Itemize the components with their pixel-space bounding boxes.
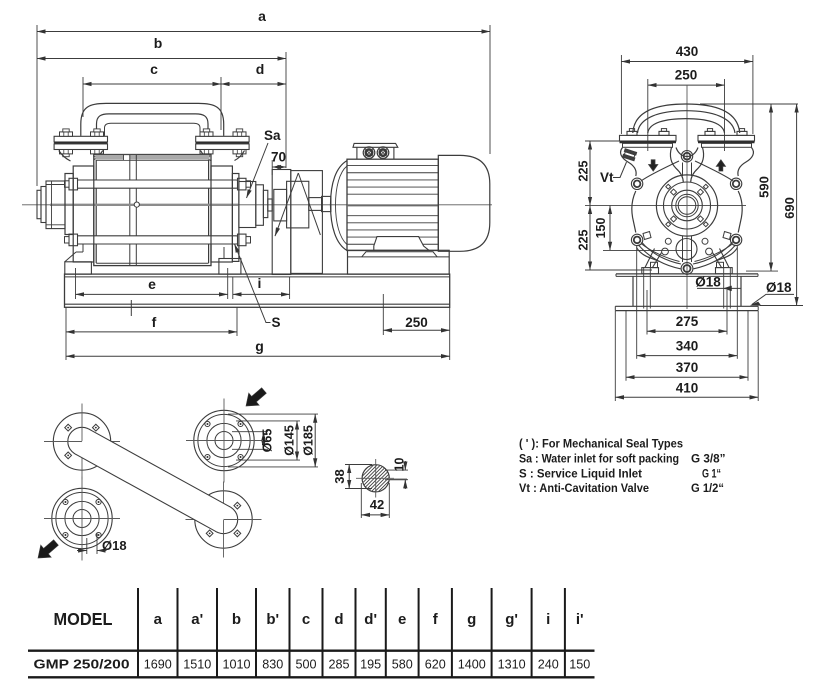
front view: anti-cavitation valve Vt — [623, 149, 637, 161]
side view: motor terminal box — [353, 143, 398, 147]
side view: motor fan cover — [438, 155, 490, 251]
side view: left shaft end — [37, 190, 41, 218]
side view: dimension g — [65, 308, 67, 361]
svg-text:285: 285 — [328, 658, 349, 672]
svg-text:GMP 250/200: GMP 250/200 — [34, 657, 130, 672]
svg-text:e: e — [148, 276, 156, 292]
side view: left support bracket — [65, 262, 92, 274]
svg-text:620: 620 — [425, 658, 446, 672]
svg-text:240: 240 — [538, 658, 559, 672]
side view: left cover plate — [65, 174, 73, 235]
svg-text:70: 70 — [271, 150, 286, 165]
svg-text:500: 500 — [295, 658, 316, 672]
front view: right leg — [720, 249, 730, 268]
front view: dimension 690 — [760, 305, 803, 307]
svg-text:Vt : Anti-Cavitation Valve: Vt : Anti-Cavitation Valve — [519, 481, 649, 495]
svg-text:d: d — [334, 611, 343, 628]
side view: dimension e — [75, 268, 77, 299]
svg-text:225: 225 — [576, 161, 590, 182]
svg-text:Ø65: Ø65 — [261, 429, 275, 453]
svg-text:g: g — [255, 338, 264, 354]
front view: casing ribs — [641, 161, 679, 181]
front view: flow arrow out — [716, 160, 725, 171]
svg-text:g: g — [467, 611, 476, 628]
front view: top casing bolt — [681, 151, 692, 162]
svg-text:G 3/8”: G 3/8” — [691, 452, 726, 466]
front view: left flange — [620, 135, 677, 141]
top view: dimension Ø145 — [236, 420, 300, 422]
side view: shaft — [50, 204, 238, 206]
top view: outlet arrow — [38, 540, 58, 558]
table: column lines — [137, 588, 139, 677]
svg-text:c: c — [150, 61, 158, 77]
shaft section: dimension 10 — [385, 469, 408, 471]
side view: motor body with fins — [347, 159, 438, 250]
front view: flange bolts — [627, 131, 637, 135]
svg-text:d': d' — [364, 611, 377, 628]
top view: flange top-right — [194, 410, 254, 470]
side view: right port flange pair — [196, 136, 249, 142]
side view: baseplate — [65, 274, 450, 307]
front view: pedestal — [616, 273, 758, 275]
top view: dimension Ø65 — [232, 431, 268, 433]
svg-text:1400: 1400 — [458, 658, 486, 672]
svg-text:150: 150 — [594, 218, 608, 239]
side view: right head — [211, 166, 232, 262]
svg-text:G 1“: G 1“ — [702, 467, 721, 481]
svg-text:S: S — [272, 315, 281, 330]
side view: dimension f — [236, 308, 238, 337]
side view: upper tie rod — [70, 180, 240, 188]
shaft section: dimension 42 — [360, 483, 362, 518]
svg-text:Ø145: Ø145 — [282, 425, 296, 456]
svg-text:370: 370 — [676, 360, 699, 375]
front view: side lug bolts — [631, 178, 642, 189]
side view: coupling — [274, 189, 287, 221]
svg-text:340: 340 — [676, 339, 699, 354]
front view: vertical centerline — [686, 85, 688, 309]
svg-text:Sa : Water inlet for soft pack: Sa : Water inlet for soft packing — [519, 452, 679, 466]
svg-text:( ' ): For Mechanical Seal Typ: ( ' ): For Mechanical Seal Types — [519, 437, 683, 451]
svg-text:Sa: Sa — [264, 128, 281, 143]
front view: casing top valley — [676, 148, 698, 157]
side view: motor drive-end bell — [331, 161, 348, 251]
svg-text:580: 580 — [392, 658, 413, 672]
side view: pump casing cylinder — [94, 155, 211, 266]
side view: cable glands — [363, 147, 375, 159]
svg-text:410: 410 — [676, 381, 699, 396]
front view: right foot pad — [716, 268, 733, 274]
front view: dimension 275 — [646, 290, 648, 335]
top view: flange bottom-left — [52, 488, 112, 548]
svg-text:g': g' — [505, 611, 518, 628]
front view: casing bottom V shell — [639, 245, 681, 269]
svg-text:225: 225 — [576, 230, 590, 251]
svg-text:c: c — [302, 611, 310, 628]
table: bottom line — [28, 676, 595, 678]
front view: dimension 340 — [636, 246, 638, 359]
svg-text:a: a — [154, 611, 163, 628]
top view: transfer pipe — [75, 429, 230, 532]
svg-text:1010: 1010 — [222, 658, 250, 672]
side view: left head — [73, 166, 94, 262]
front view: right flange — [698, 135, 755, 141]
top view: inlet arrow — [246, 388, 266, 406]
front view: casing inner walls — [670, 148, 683, 183]
front view: pedestal base plate — [615, 305, 758, 307]
front view: hub bolts — [697, 216, 703, 222]
front view: dimension 225 lower — [585, 269, 652, 271]
svg-text:1690: 1690 — [144, 658, 172, 672]
side view: left bearing cap — [46, 181, 65, 229]
svg-text:1510: 1510 — [183, 658, 211, 672]
front view: drain boss circle — [676, 239, 697, 260]
svg-text:150: 150 — [569, 658, 590, 672]
top view: flange bottom-right — [195, 491, 252, 548]
svg-text:250: 250 — [405, 315, 428, 330]
side view: dimension b — [285, 52, 287, 168]
side view: dimension i — [232, 277, 234, 299]
side view: bearing housing — [239, 182, 256, 228]
side view: dimension c — [82, 77, 84, 117]
side view: right port neck — [201, 151, 212, 162]
svg-text:G 1/2“: G 1/2“ — [691, 481, 724, 495]
top view: flange top-left — [53, 413, 110, 470]
svg-text:Ø18: Ø18 — [102, 538, 127, 553]
side view: motor support block — [348, 250, 450, 274]
front view: left foot pad — [642, 268, 659, 274]
svg-text:b: b — [232, 611, 241, 628]
side view: coupling guard — [272, 170, 291, 275]
top view: dimension Ø18 bolt hole — [86, 538, 88, 554]
svg-text:MODEL: MODEL — [54, 609, 113, 629]
side view: dimension 250 base — [382, 294, 384, 335]
side view: left port neck — [59, 151, 71, 162]
svg-text:1310: 1310 — [498, 658, 526, 672]
front view: dimension 430 — [620, 55, 622, 134]
svg-text:Ø185: Ø185 — [302, 425, 316, 456]
svg-text:38: 38 — [332, 469, 347, 483]
svg-text:a: a — [258, 8, 266, 24]
front view: flow arrow in — [649, 160, 658, 171]
svg-text:250: 250 — [675, 68, 698, 83]
side view: dimension d — [221, 83, 286, 85]
front view: overflow pipe arches — [633, 104, 740, 133]
side view: left port flange pair — [54, 136, 107, 142]
side view: motor foot — [374, 237, 429, 251]
front view: left leg — [645, 249, 655, 268]
side view: right support bracket — [219, 259, 241, 275]
svg-text:e: e — [398, 611, 406, 628]
svg-text:Ø18: Ø18 — [695, 275, 721, 290]
side view: overflow U-pipe — [81, 103, 224, 135]
svg-text:42: 42 — [370, 497, 384, 512]
front view: horizontal centerline — [585, 205, 746, 207]
side view: casing parting lines — [124, 155, 130, 160]
svg-text:430: 430 — [676, 44, 699, 59]
svg-text:f: f — [152, 314, 157, 330]
front view: dimension 150 — [603, 249, 692, 251]
front view: dimension 250 — [647, 79, 649, 151]
shaft section: crosshairs — [356, 477, 394, 479]
side view: dimension a — [36, 25, 38, 186]
front view: dimension 410 — [614, 311, 616, 401]
front view: dimension 225 upper — [585, 140, 620, 142]
shaft section: dimension 38 — [345, 464, 372, 466]
svg-text:i': i' — [576, 611, 584, 628]
svg-text:Vt: Vt — [600, 170, 614, 185]
svg-text:a': a' — [191, 611, 203, 628]
side view: casing drain hole — [134, 202, 139, 207]
front view: dimension 590 — [746, 270, 778, 272]
side view: dimension 70 — [271, 160, 273, 175]
svg-text:830: 830 — [262, 658, 283, 672]
svg-text:d: d — [256, 61, 265, 77]
svg-text:S : Service Liquid Inlet: S : Service Liquid Inlet — [519, 467, 642, 481]
front view: small casing holes — [665, 238, 671, 244]
svg-text:b': b' — [266, 611, 279, 628]
table: header separator line — [28, 650, 595, 652]
shaft section: key line — [389, 478, 407, 480]
front view: casing outline right side — [738, 148, 754, 177]
front view: bottom casing bolt — [681, 263, 693, 275]
svg-text:Ø18: Ø18 — [766, 280, 792, 295]
svg-text:i: i — [546, 611, 550, 628]
svg-text:275: 275 — [676, 314, 699, 329]
front view: casing outline left side — [621, 148, 637, 177]
top view: dimension Ø185 — [228, 413, 318, 415]
side view: shaft centerline — [22, 204, 492, 206]
front view: bearing hub circles — [656, 175, 717, 236]
svg-text:590: 590 — [756, 176, 771, 198]
svg-text:195: 195 — [360, 658, 381, 672]
svg-text:10: 10 — [392, 458, 406, 472]
side view: lower tie rod — [70, 236, 240, 244]
front view: dimension 370 — [625, 311, 627, 381]
side view: right cover plate — [232, 174, 239, 262]
svg-text:i: i — [258, 275, 262, 291]
svg-text:b: b — [154, 35, 163, 51]
svg-text:690: 690 — [782, 197, 797, 219]
front view: side tabs — [643, 232, 651, 240]
